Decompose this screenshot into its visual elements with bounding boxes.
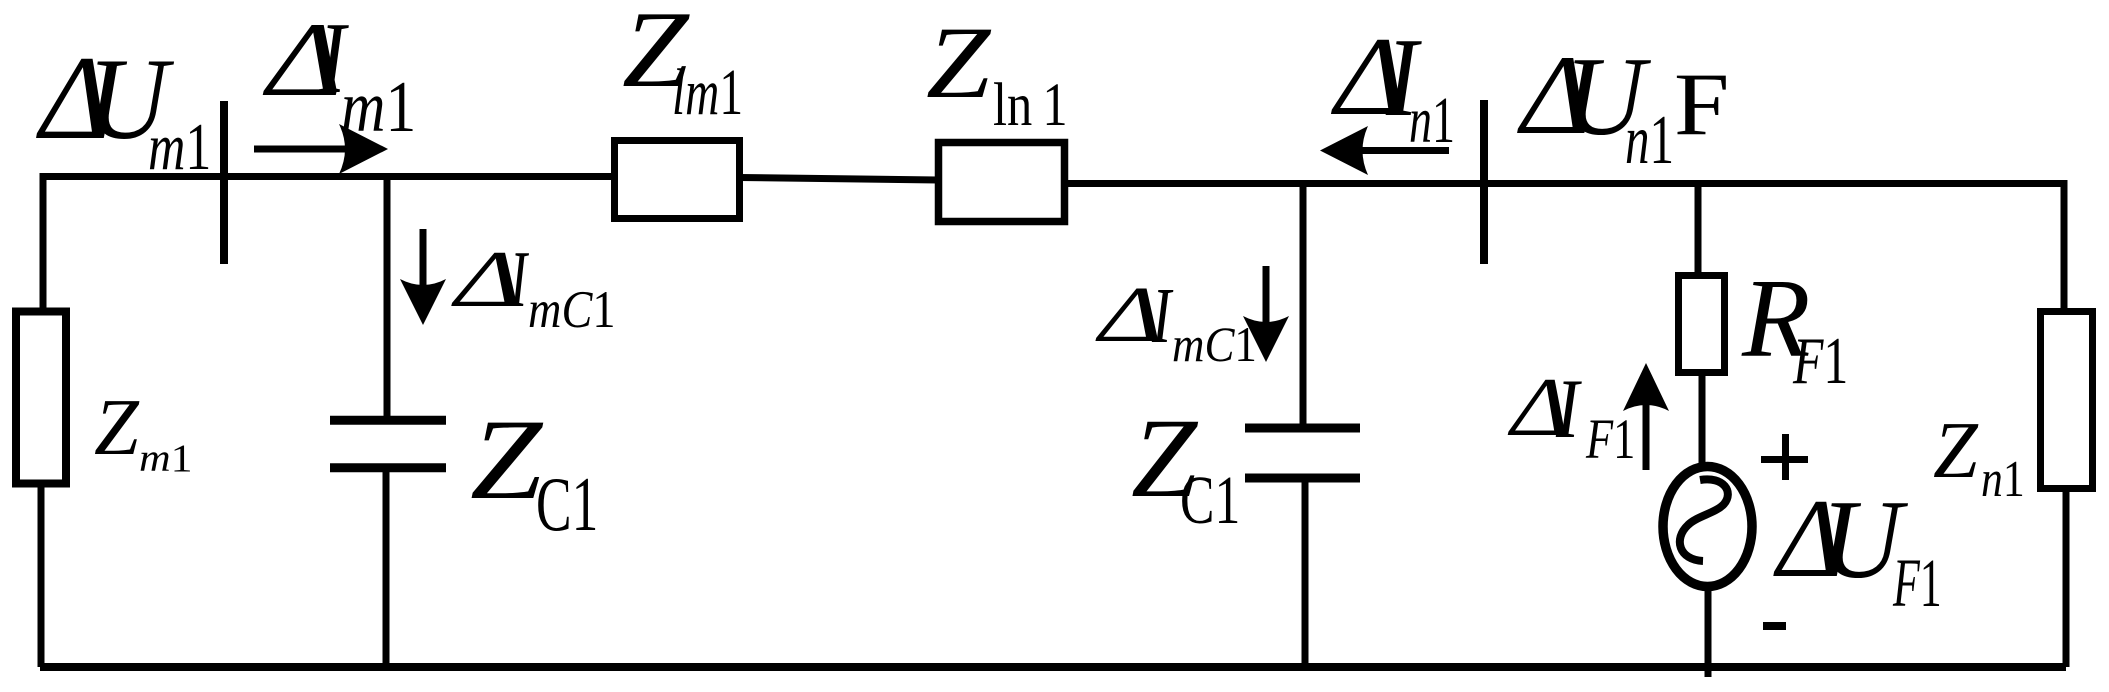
wire left branch lower	[38, 485, 45, 667]
svg-text:F1: F1	[1792, 324, 1848, 398]
svg-text:mC1: mC1	[1172, 316, 1257, 372]
wire top bus left segment	[40, 173, 614, 180]
arrow dIn1 left	[1356, 147, 1449, 154]
impedance Zlm1 box	[615, 141, 740, 219]
wire shunt2 upper	[1300, 183, 1307, 424]
wire fault branch upper	[1695, 183, 1702, 274]
svg-text:I: I	[509, 235, 529, 324]
wire fault branch mid	[1699, 374, 1706, 469]
svg-text:m1: m1	[139, 436, 193, 480]
arrow dImC1 left down	[420, 229, 427, 295]
svg-text:mC1: mC1	[528, 281, 616, 339]
svg-text:C1: C1	[536, 461, 598, 547]
svg-text:ln 1: ln 1	[993, 72, 1068, 139]
source UF1 ellipse	[1663, 467, 1752, 587]
wire right branch lower	[2063, 490, 2070, 667]
wire bottom bus	[40, 663, 2066, 671]
plus sign vertical	[1782, 434, 1789, 480]
wire shunt1 upper	[384, 176, 391, 417]
node bus n1 tick	[1480, 100, 1488, 264]
arrow dImC1 right down	[1263, 266, 1270, 330]
resistor RF1 box	[1679, 276, 1725, 373]
node bus m1 tick	[220, 101, 228, 264]
svg-text:Z: Z	[926, 6, 992, 120]
svg-text:lm1: lm1	[672, 57, 743, 129]
svg-text:C1: C1	[1180, 462, 1240, 538]
wire shunt2 lower	[1302, 478, 1309, 667]
wire shunt1 lower	[383, 471, 390, 667]
svg-text:n1: n1	[1981, 451, 2025, 508]
svg-text:n1: n1	[1625, 102, 1674, 179]
wire fault branch lower	[1705, 588, 1712, 677]
arrow dIF1 up	[1643, 400, 1650, 470]
svg-text:F1: F1	[1585, 408, 1635, 471]
wire top bus right segment	[1065, 180, 2064, 187]
source UF1 sine squiggle	[1680, 479, 1728, 561]
impedance Zm1 box	[16, 312, 66, 484]
svg-text:Z: Z	[470, 395, 544, 523]
svg-text:Z: Z	[1933, 406, 1979, 495]
svg-text:I: I	[1555, 362, 1582, 456]
arrow dIm1 right	[254, 146, 352, 153]
wire right branch upper	[2061, 180, 2068, 310]
minus sign	[1763, 622, 1786, 630]
capacitor ZC1 left top plate	[330, 416, 446, 425]
capacitor ZC1 right top plate	[1245, 424, 1360, 433]
svg-text:n1: n1	[1409, 85, 1455, 157]
capacitor ZC1 right bottom plate	[1245, 474, 1360, 483]
plus sign horizontal	[1761, 456, 1808, 463]
svg-text:F: F	[1674, 55, 1729, 154]
capacitor ZC1 left bottom plate	[330, 463, 446, 472]
svg-text:F1: F1	[1892, 545, 1941, 621]
wire left branch upper	[40, 173, 47, 310]
wire between Zlm1 and Zln1	[740, 178, 938, 181]
svg-text:m1: m1	[148, 110, 211, 184]
svg-text:Z: Z	[94, 383, 140, 472]
svg-text:m1: m1	[341, 66, 416, 147]
impedance Zln1 box	[939, 143, 1065, 222]
impedance Zn1 box	[2041, 312, 2093, 489]
svg-text:I: I	[1151, 273, 1174, 360]
